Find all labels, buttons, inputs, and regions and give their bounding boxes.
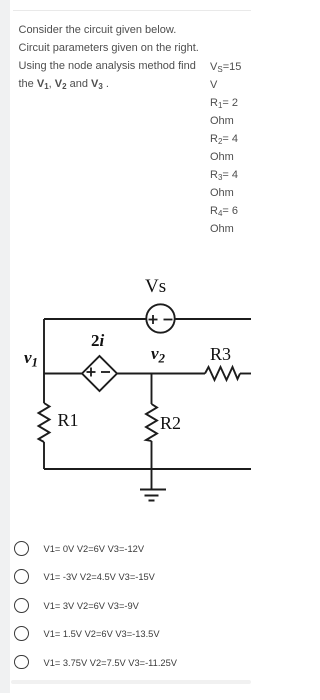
dependent source minus sign — [101, 371, 110, 373]
bottom separator line — [11, 680, 252, 684]
wire top-right: Vs source to right edge — [175, 318, 251, 320]
option text 5 — [44, 658, 177, 668]
option text 2 — [44, 572, 155, 582]
parameter list — [210, 58, 250, 238]
answer option row 3 — [0, 598, 251, 626]
svg-text:R1: R1 — [58, 410, 79, 430]
Vs source minus sign — [164, 319, 173, 321]
svg-text:Vs: Vs — [145, 276, 166, 297]
svg-text:v1: v1 — [24, 348, 38, 370]
answer option row 5 — [0, 655, 251, 683]
radio circle 1 — [14, 541, 29, 556]
wire middle: dependent source to R3 — [117, 373, 205, 375]
dependent source diamond — [82, 356, 117, 391]
radio circle 4 — [14, 626, 29, 641]
question text — [19, 21, 219, 93]
option text 4 — [44, 629, 160, 639]
wire R2 bottom through bottom wire to ground — [151, 441, 153, 489]
answer option row 4 — [0, 626, 251, 654]
left gray sidebar strip — [0, 0, 10, 693]
svg-text:R2: R2 — [160, 413, 181, 433]
top separator line — [13, 10, 251, 11]
svg-text:R3: R3 — [210, 344, 231, 364]
wire v2 junction down to R2 — [151, 374, 153, 405]
option text 1 — [44, 544, 145, 554]
resistor R2 zigzag — [146, 404, 157, 441]
wire middle: v1 to dependent source — [44, 373, 82, 375]
radio circle 5 — [14, 655, 29, 670]
Vs source plus sign — [149, 315, 173, 324]
resistor R3 zigzag — [205, 367, 240, 380]
svg-text:v2: v2 — [151, 344, 166, 366]
option text 3 — [44, 601, 139, 611]
wire left vertical upper (node v1) — [43, 319, 45, 403]
wire R3 right terminal to edge — [240, 373, 251, 375]
circuit schematic — [0, 260, 251, 510]
dependent source plus sign — [87, 368, 111, 377]
ground symbol — [140, 490, 166, 501]
svg-text:2i: 2i — [91, 331, 105, 350]
radio circle 3 — [14, 598, 29, 613]
answer option row 2 — [0, 569, 251, 597]
answer option row 1 — [0, 541, 251, 569]
wire top-left: v1 top to Vs source — [44, 318, 146, 320]
wire left vertical lower — [43, 442, 45, 469]
wire bottom — [44, 468, 251, 470]
resistor R1 zigzag — [39, 403, 50, 442]
voltage source Vs circle — [146, 304, 174, 332]
radio circle 2 — [14, 569, 29, 584]
